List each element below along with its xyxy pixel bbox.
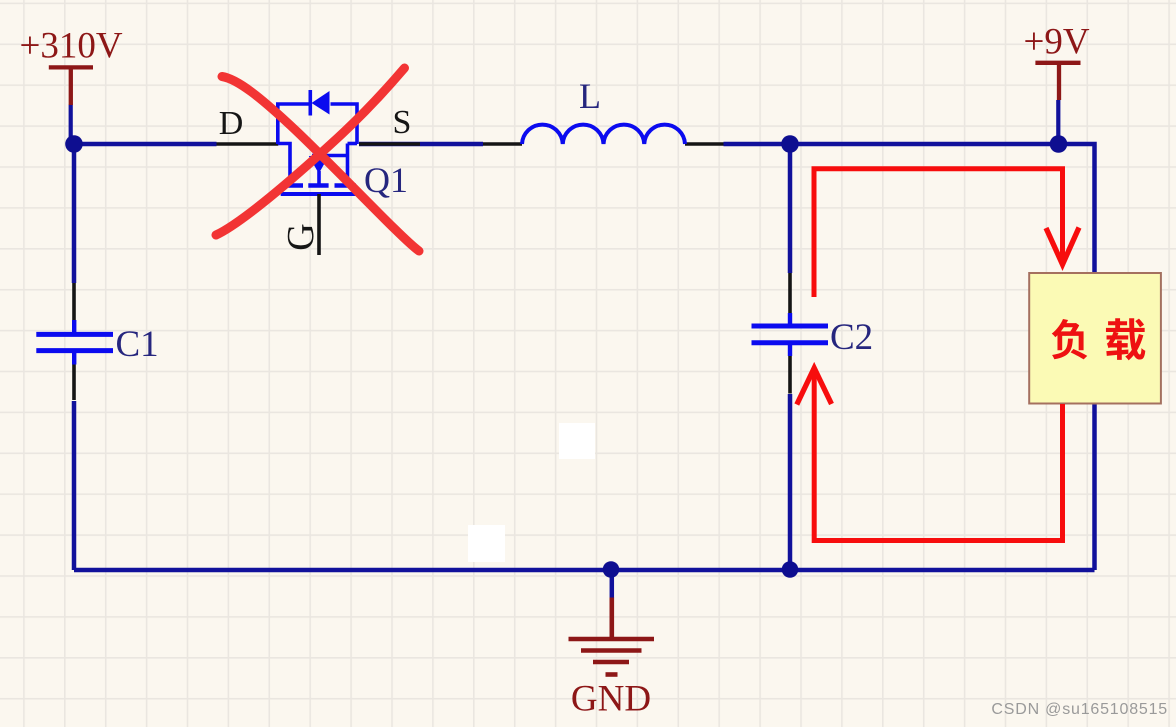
svg-text:S: S bbox=[393, 104, 412, 141]
svg-text:GND: GND bbox=[571, 679, 651, 720]
net label +9V bbox=[1023, 22, 1089, 63]
svg-text:+9V: +9V bbox=[1023, 22, 1089, 63]
designator C2 bbox=[830, 317, 873, 358]
svg-text:+310V: +310V bbox=[19, 26, 122, 67]
power port +9V bbox=[1035, 63, 1080, 100]
pin leads C1 (black) bbox=[72, 283, 76, 400]
svg-text:G: G bbox=[280, 223, 322, 250]
pin leads L (black) bbox=[483, 142, 724, 146]
wire +9V stub bbox=[1056, 100, 1060, 141]
junction node C2 top bbox=[781, 135, 799, 153]
svg-text:C1: C1 bbox=[116, 324, 159, 365]
designator L bbox=[579, 76, 601, 116]
white patch 1 bbox=[559, 423, 595, 459]
net label +310V bbox=[19, 26, 122, 67]
pin label D bbox=[219, 105, 244, 142]
load label 负 bbox=[1052, 319, 1088, 359]
svg-text:Q1: Q1 bbox=[364, 160, 408, 200]
svg-text:D: D bbox=[219, 105, 244, 142]
red cross stroke 1 bbox=[222, 77, 419, 252]
svg-text:CSDN @su165108515: CSDN @su165108515 bbox=[991, 701, 1168, 718]
capacitor C1 bbox=[36, 320, 113, 365]
white patch 2 bbox=[468, 525, 505, 562]
transistor Q1 (MOSFET with body diode) bbox=[278, 90, 357, 194]
current loop lower (red) bbox=[814, 368, 1062, 541]
pin label S bbox=[393, 104, 412, 141]
wire bottom (ground rail) bbox=[74, 568, 1095, 573]
load label 载 bbox=[1106, 318, 1145, 360]
inductor L bbox=[522, 125, 685, 144]
designator C1 bbox=[116, 324, 159, 365]
designator Q1 bbox=[364, 160, 408, 200]
Q1 substrate arrow bbox=[309, 156, 329, 174]
junction node left bbox=[65, 135, 83, 153]
pin lead S (black) bbox=[359, 142, 420, 146]
power port +310V bbox=[49, 67, 93, 105]
wire GND stub bbox=[610, 570, 615, 598]
current arrow up bbox=[797, 368, 832, 405]
net label GND bbox=[571, 679, 651, 720]
pin lead G (black) bbox=[317, 194, 321, 255]
Q1 body diode arrow bbox=[312, 91, 330, 115]
capacitor C2 bbox=[752, 313, 829, 356]
svg-text:C2: C2 bbox=[830, 317, 873, 358]
wire left branch (C1) bbox=[72, 144, 77, 570]
svg-text:L: L bbox=[579, 76, 601, 116]
red cross stroke 2 bbox=[216, 68, 405, 235]
load box bbox=[1029, 273, 1161, 404]
junction node +9V bbox=[1050, 135, 1068, 153]
pin label G (rotated) bbox=[280, 223, 322, 250]
current loop upper (red) bbox=[814, 169, 1063, 297]
pin lead D (black) bbox=[217, 142, 279, 146]
wire top (node D supply rail) bbox=[74, 144, 1095, 570]
junction node GND bbox=[603, 561, 620, 578]
wire +310V stub bbox=[69, 105, 73, 142]
watermark bbox=[991, 701, 1168, 718]
current arrow down bbox=[1046, 228, 1079, 265]
junction node C2 bottom bbox=[782, 561, 799, 578]
wire C2 branch bbox=[788, 144, 793, 570]
ground symbol bbox=[569, 598, 655, 675]
pin leads C2 (black) bbox=[788, 273, 792, 394]
